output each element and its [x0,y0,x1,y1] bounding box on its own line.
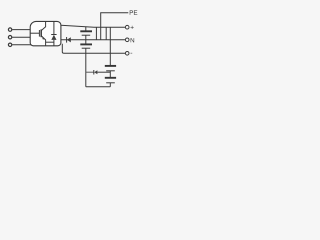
capacitor C1 plate + [80,30,92,32]
wire L3 to box [12,44,31,46]
wire L2 to box [12,36,30,38]
label PE [130,10,138,14]
minus wire from box [62,44,125,54]
diode D2 cathode bar [66,37,68,43]
diode D2 triangle [67,37,71,42]
diode D3 triangle [94,70,97,74]
capacitor C4 lead bottom [109,83,111,87]
input terminal L1 [8,28,11,31]
capacitor C1 plate - [82,34,91,36]
capacitor C2 plate + [80,43,92,45]
wire L1 to box [12,29,30,31]
capacitor C1 lead top [85,27,87,32]
terminal N [125,38,129,42]
capacitor C2 lead top [85,40,87,45]
capacitor C3 plate + [105,65,116,67]
transistor Q1 emitter arrow [42,36,45,40]
diode D1 anode wire [53,40,55,46]
capacitor C3 plate - [106,70,115,72]
input terminal L3 [8,43,11,46]
diode D3 anode wire [97,71,110,73]
bottom link wire [86,86,111,88]
balance wire A [95,27,97,40]
plus rail [61,25,126,27]
transistor Q1 gate wire [30,32,39,34]
capacitor C4 plate + [105,77,116,79]
bus wire C [109,27,111,66]
transistor Q1 emitter [41,36,45,46]
label N [131,38,135,42]
diode D1 cathode bar [51,34,56,36]
capacitor C4 plate - [106,82,115,84]
transistor Q1 base bar [40,29,42,37]
capacitor C2 plate - [82,47,91,49]
background [0,0,138,91]
mid link wire with diode D3 [86,71,94,73]
capacitor C3 lead bottom [109,71,111,78]
label plus [131,26,134,29]
IGBT module box U1 [30,21,61,45]
capacitor C1 lead bottom [85,35,87,40]
transistor Q1 collector [41,21,45,30]
diode D3 cathode bar [93,70,95,75]
transistor Q1 gate bar [38,30,40,37]
PE wire [101,13,129,40]
label minus [131,52,133,55]
capacitor C2 lead bottom [85,48,87,87]
terminal plus [125,25,129,29]
diode D1 cathode wire [53,21,55,34]
input terminal L2 [8,36,11,39]
diode D1 triangle [51,35,56,40]
N rail [61,39,126,41]
emitter-diode rung [46,41,54,43]
balance wire B [105,27,107,40]
terminal minus [125,52,129,56]
